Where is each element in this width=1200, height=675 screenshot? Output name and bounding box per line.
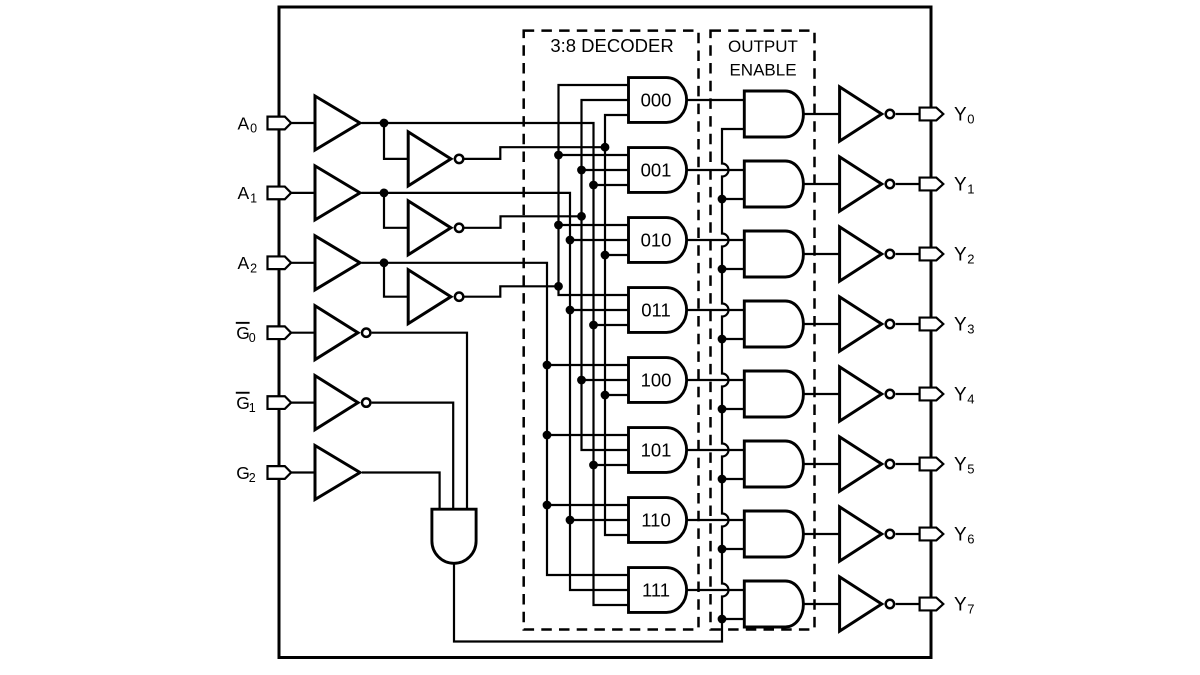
wire Y0 OE output [803, 113, 839, 115]
output connector Y2 [920, 248, 944, 261]
junction A1 complement taps [577, 166, 586, 385]
label nG1 [236, 392, 256, 415]
output inverter Y1 [840, 157, 895, 211]
label Y7 [954, 594, 975, 616]
svg-text:Y: Y [954, 174, 967, 195]
svg-text:Y: Y [954, 244, 967, 265]
junction A1 [380, 189, 389, 198]
wire Y4 to pin [896, 393, 920, 395]
label Y0 [954, 104, 975, 126]
wire Y7 to pin [896, 603, 920, 605]
wire input G2 [291, 471, 315, 473]
buffer A1 (input stage) [315, 166, 360, 220]
junction A2 bus taps [543, 361, 552, 510]
wire G0 to enable AND [372, 333, 467, 510]
junction A0 complement taps [601, 143, 610, 400]
svg-text:101: 101 [641, 440, 672, 461]
svg-text:Y: Y [954, 104, 967, 125]
output inverter Y2 [840, 227, 895, 281]
input connector A1 [268, 187, 292, 200]
enable AND gate Y2 [744, 231, 803, 277]
AND gate 011 [629, 288, 687, 333]
AND gate 111 [629, 568, 687, 613]
net A2 true [362, 263, 629, 575]
AND gate 100 [629, 358, 687, 403]
label Y4 [954, 384, 975, 406]
svg-text:G: G [236, 463, 250, 483]
svg-text:OUTPUT: OUTPUT [728, 37, 798, 56]
inverter A1 complement stage [408, 201, 463, 255]
junction A1 bus taps [566, 236, 575, 525]
output inverter Y3 [840, 297, 895, 351]
buffer G2 (input stage) [315, 446, 360, 500]
wire input G1 [291, 402, 315, 404]
svg-text:5: 5 [967, 462, 974, 477]
svg-text:A: A [238, 183, 250, 203]
enable AND gate Y0 [744, 91, 803, 137]
svg-text:7: 7 [967, 602, 974, 617]
label Y6 [954, 524, 975, 546]
label A2 [238, 253, 258, 275]
wire Y1 OE output [803, 183, 839, 185]
wire decoder 000 output [687, 99, 745, 101]
enable AND gate Y7 [744, 581, 803, 627]
net A0 true [362, 123, 629, 605]
svg-text:Y: Y [954, 384, 967, 405]
junction A2 complement taps [554, 151, 563, 291]
svg-text:1: 1 [250, 191, 257, 205]
output connector Y6 [920, 528, 944, 541]
svg-text:3: 3 [967, 322, 974, 337]
wire A0 to inverter [384, 123, 408, 159]
output connector Y4 [920, 388, 944, 401]
svg-text:Y: Y [954, 314, 967, 335]
wire input A0 [291, 122, 315, 124]
wire Y3 OE output [803, 323, 839, 325]
wire G2 to enable AND [362, 473, 440, 510]
output inverter Y0 [840, 87, 895, 141]
buffer A2 (input stage) [315, 236, 360, 290]
svg-text:A: A [238, 113, 250, 133]
wire decoder 111 output [687, 589, 745, 591]
wire input A2 [291, 262, 315, 264]
net A0 complement [464, 115, 628, 535]
svg-text:0: 0 [249, 331, 256, 345]
net A2 complement [464, 85, 628, 297]
wire decoder 011 output [687, 309, 745, 311]
net A1 complement [464, 100, 628, 450]
enable AND gate Y6 [744, 511, 803, 557]
AND gate 110 [629, 498, 687, 543]
AND gate 000 [629, 78, 687, 123]
input connector G0 [268, 326, 292, 339]
label A0 [238, 113, 258, 135]
wire decoder 110 output [687, 519, 745, 521]
svg-text:A: A [238, 253, 250, 273]
svg-text:0: 0 [250, 122, 257, 136]
svg-text:Y: Y [954, 454, 967, 475]
input connector A2 [268, 256, 292, 269]
wire Y0 to pin [896, 113, 920, 115]
svg-text:2: 2 [250, 261, 257, 275]
label nG0 [236, 322, 256, 345]
label Y2 [954, 244, 975, 266]
wire Y1 to pin [896, 183, 920, 185]
label Y3 [954, 314, 975, 336]
output inverter Y4 [840, 367, 895, 421]
buffer A0 (input stage) [315, 96, 360, 150]
wire input A1 [291, 192, 315, 194]
output connector Y1 [920, 178, 944, 191]
svg-text:000: 000 [641, 90, 672, 111]
svg-text:4: 4 [967, 392, 974, 407]
inverter G0 (input stage) [315, 306, 370, 360]
3:8 decoder dashed box [524, 31, 699, 630]
enable AND gate Y1 [744, 161, 803, 207]
output connector Y7 [920, 598, 944, 611]
svg-text:100: 100 [641, 370, 672, 391]
svg-text:2: 2 [967, 252, 974, 267]
svg-text:0: 0 [967, 112, 974, 127]
wire input G0 [291, 332, 315, 334]
inverter G1 (input stage) [315, 376, 370, 430]
inverter A2 complement stage [408, 270, 463, 324]
input connector G1 [268, 396, 292, 409]
output inverter Y6 [840, 507, 895, 561]
output connector Y0 [920, 108, 944, 121]
svg-text:6: 6 [967, 532, 974, 547]
output connector Y5 [920, 458, 944, 471]
svg-text:111: 111 [642, 580, 670, 601]
svg-text:110: 110 [641, 510, 671, 531]
wire Y5 OE output [803, 463, 839, 465]
wire Y5 to pin [896, 463, 920, 465]
wire A2 to inverter [384, 263, 408, 297]
output inverter Y5 [840, 437, 895, 491]
junction A0 [380, 119, 389, 128]
output inverter Y7 [840, 577, 895, 631]
svg-text:Y: Y [954, 524, 967, 545]
input connector A0 [268, 117, 292, 130]
junction A0 bus taps [589, 181, 598, 470]
svg-text:010: 010 [641, 230, 672, 251]
AND gate 010 [629, 218, 687, 263]
svg-text:001: 001 [641, 160, 672, 181]
svg-text:Y: Y [954, 594, 967, 615]
output connector Y3 [920, 318, 944, 331]
junction A2 [380, 258, 389, 267]
inverter A0 complement stage [408, 132, 463, 186]
label Y1 [954, 174, 975, 196]
svg-text:1: 1 [249, 401, 256, 415]
svg-text:3:8 DECODER: 3:8 DECODER [550, 35, 673, 56]
svg-text:ENABLE: ENABLE [729, 60, 796, 79]
wire decoder 100 output [687, 379, 745, 381]
wire Y4 OE output [803, 393, 839, 395]
label G2 [236, 463, 256, 485]
label A1 [238, 183, 258, 205]
wire Y3 to pin [896, 323, 920, 325]
label Y5 [954, 454, 975, 476]
svg-text:G: G [236, 323, 250, 343]
svg-text:G: G [236, 393, 250, 413]
wire Y6 OE output [803, 533, 839, 535]
wire Y7 OE output [803, 603, 839, 605]
AND gate enable G [432, 509, 476, 563]
output enable dashed box [711, 31, 815, 630]
wire decoder 010 output [687, 239, 745, 241]
enable AND gate Y4 [744, 371, 803, 417]
enable AND gate Y5 [744, 441, 803, 487]
wire Y6 to pin [896, 533, 920, 535]
wire decoder 001 output [687, 169, 745, 171]
svg-text:1: 1 [967, 182, 974, 197]
svg-text:011: 011 [641, 300, 671, 321]
net enable (AND output to OE gates) [454, 129, 744, 642]
enable AND gate Y3 [744, 301, 803, 347]
wire Y2 OE output [803, 253, 839, 255]
AND gate 101 [629, 428, 687, 473]
AND gate 001 [629, 148, 687, 193]
wire decoder 101 output [687, 449, 745, 451]
wire Y2 to pin [896, 253, 920, 255]
chip outline [279, 7, 931, 658]
net A1 true [362, 193, 629, 590]
wire G1 to enable AND [372, 403, 454, 510]
svg-text:2: 2 [249, 471, 256, 485]
junction enable bus taps [718, 195, 727, 624]
input connector G2 [268, 466, 292, 479]
wire A1 to inverter [384, 193, 408, 228]
